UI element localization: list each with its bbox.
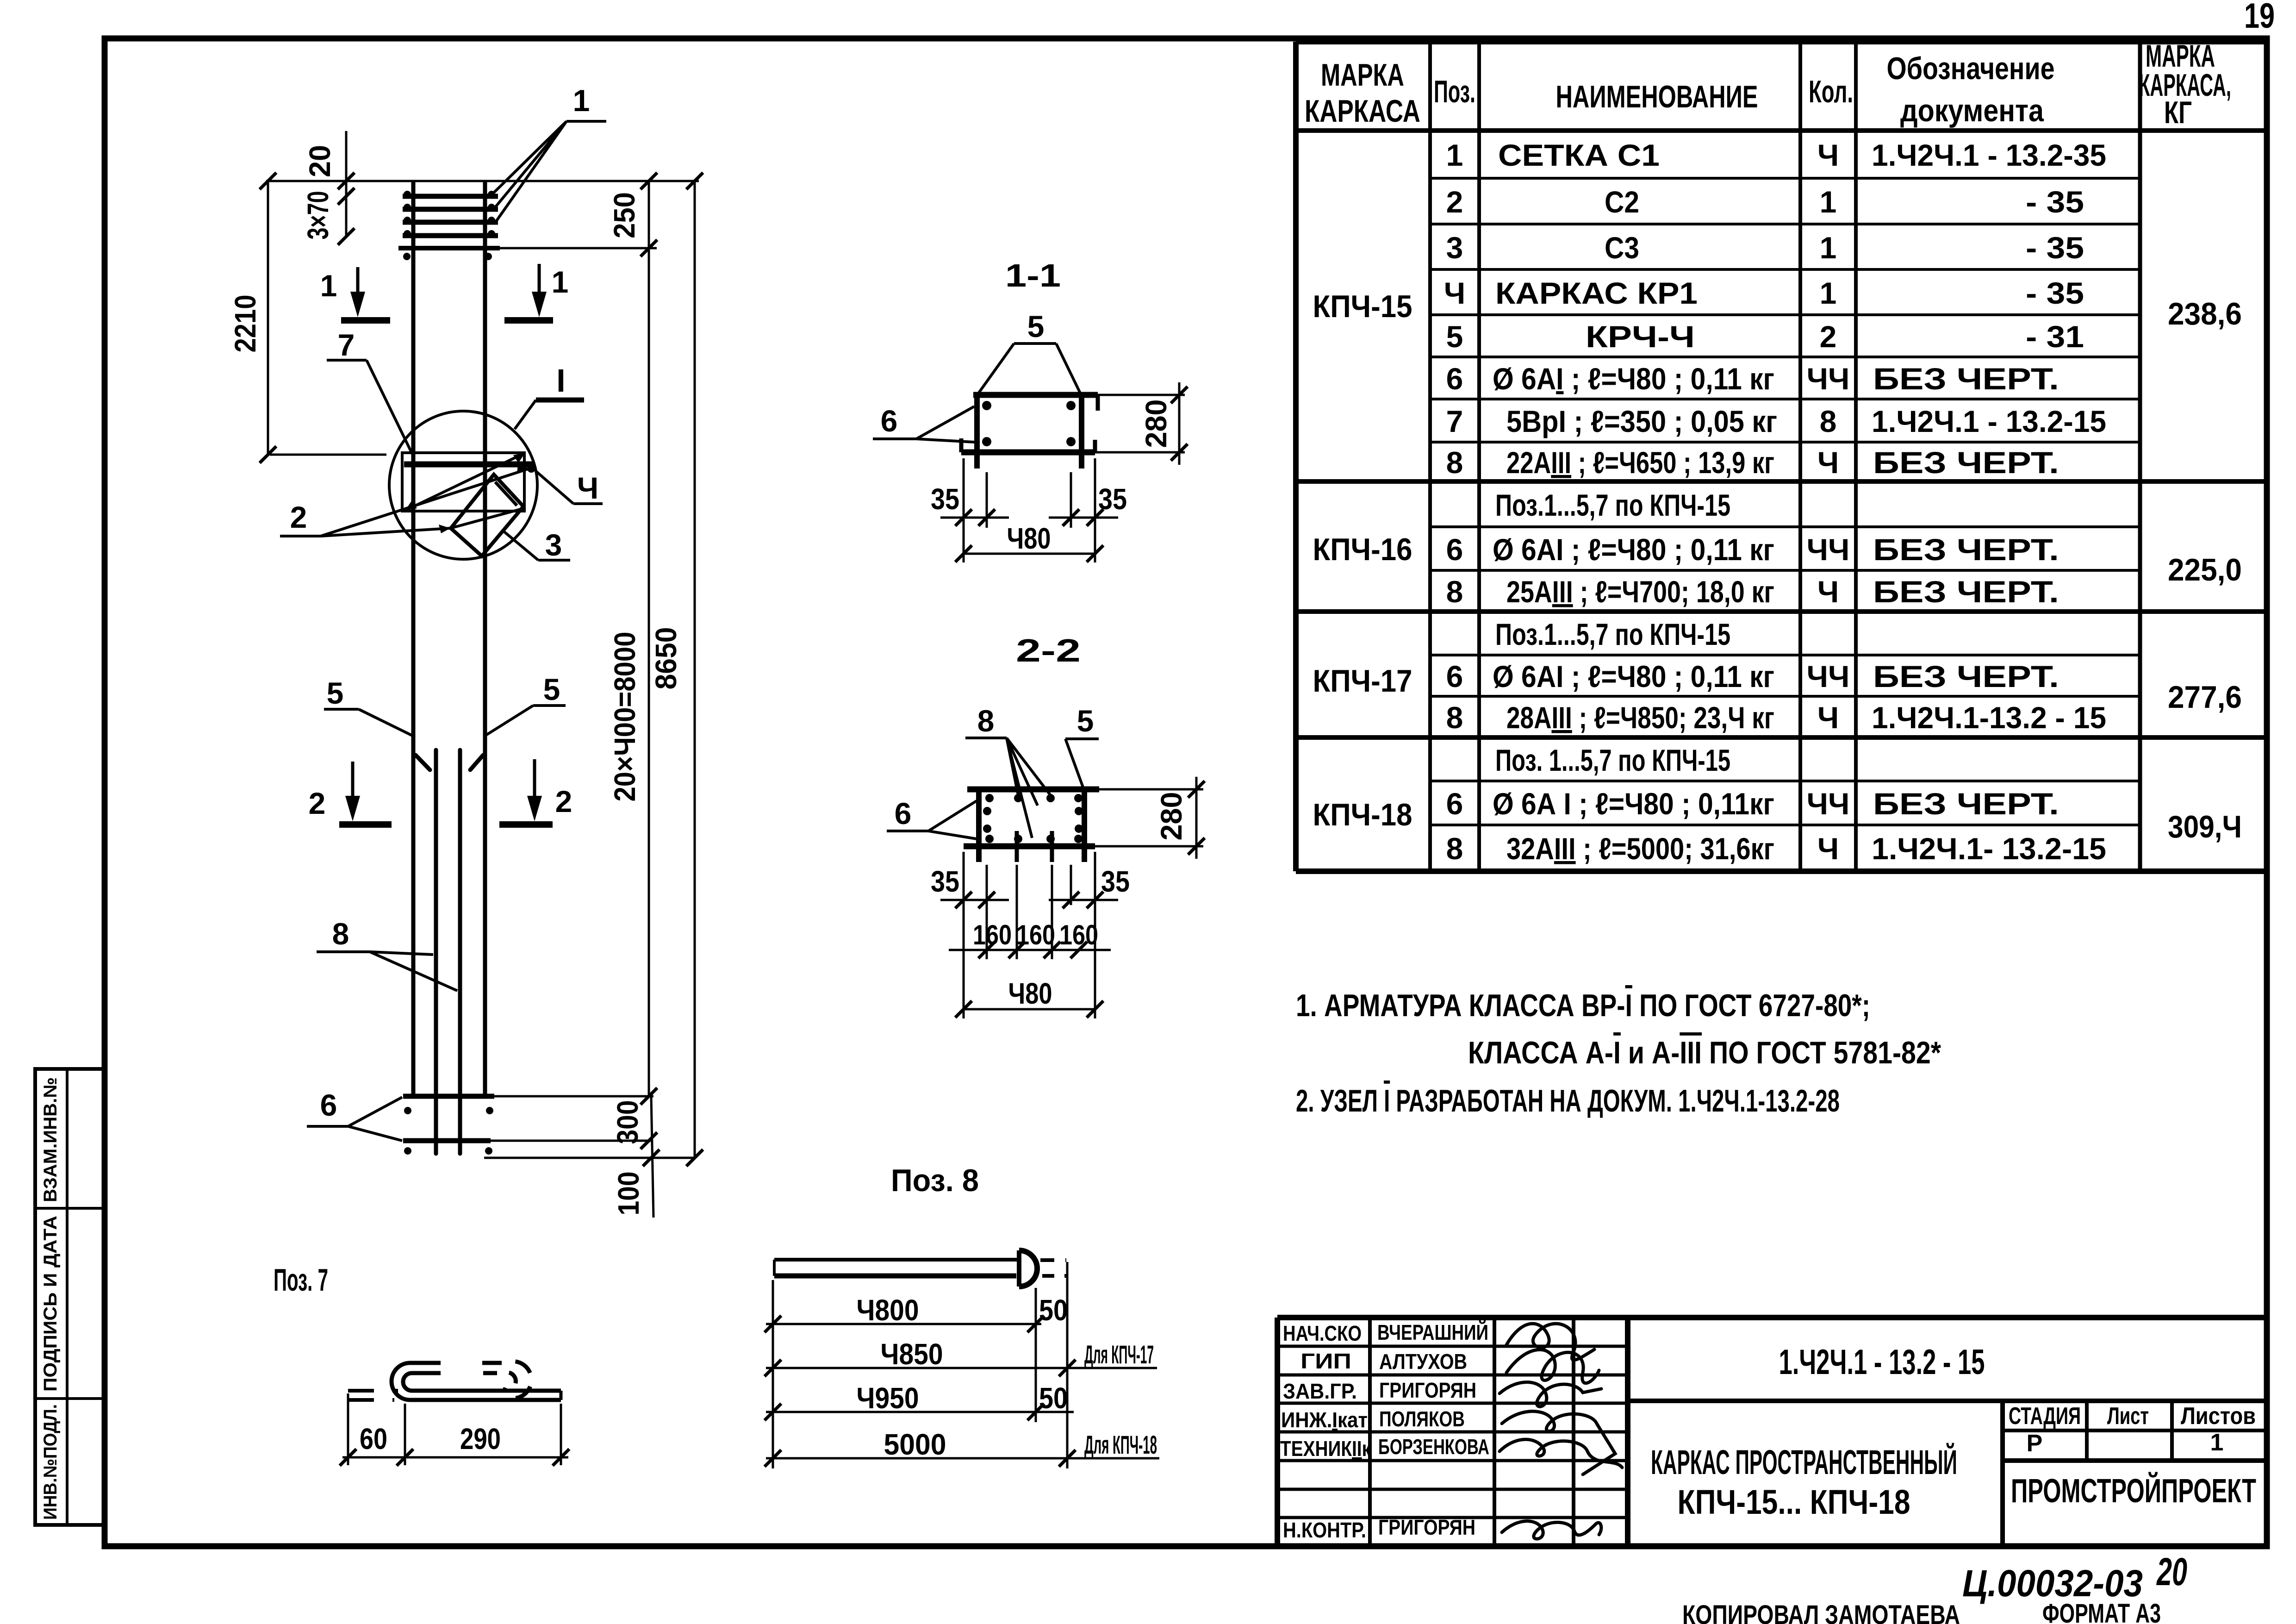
svg-text:ИНВ.№ПОДЛ.: ИНВ.№ПОДЛ. <box>40 1404 61 1520</box>
svg-text:- 35: - 35 <box>2026 231 2084 265</box>
svg-text:20: 20 <box>303 145 336 177</box>
svg-text:6: 6 <box>1446 532 1463 567</box>
svg-text:Для КПЧ-17: Для КПЧ-17 <box>1084 1340 1154 1369</box>
svg-text:1.Ч2Ч.1 - 13.2-35: 1.Ч2Ч.1 - 13.2-35 <box>1872 138 2106 172</box>
svg-text:- 35: - 35 <box>2026 276 2084 310</box>
svg-text:5: 5 <box>1077 704 1094 738</box>
svg-text:8: 8 <box>1446 700 1463 735</box>
svg-text:2: 2 <box>290 500 307 534</box>
svg-text:1: 1 <box>552 265 569 299</box>
svg-text:НАИМЕНОВАНИЕ: НАИМЕНОВАНИЕ <box>1556 79 1758 114</box>
svg-text:32АIII ; ℓ=5000; 31,6кг: 32АIII ; ℓ=5000; 31,6кг <box>1506 831 1774 866</box>
svg-text:5: 5 <box>1446 319 1463 354</box>
svg-text:2-2: 2-2 <box>1016 632 1081 668</box>
svg-text:Ø 6А I ; ℓ=Ч80 ; 0,11кг: Ø 6А I ; ℓ=Ч80 ; 0,11кг <box>1493 787 1774 821</box>
svg-text:ТЕХНИКIIк: ТЕХНИКIIк <box>1280 1437 1371 1461</box>
svg-text:1: 1 <box>573 83 590 118</box>
svg-text:6: 6 <box>895 796 912 831</box>
svg-text:ЧЧ: ЧЧ <box>1807 532 1850 567</box>
svg-text:1.Ч2Ч.1 - 13.2-15: 1.Ч2Ч.1 - 13.2-15 <box>1872 404 2106 438</box>
svg-text:22АIII ; ℓ=Ч650 ; 13,9 кг: 22АIII ; ℓ=Ч650 ; 13,9 кг <box>1506 445 1774 480</box>
svg-text:Кол.: Кол. <box>1809 74 1853 109</box>
svg-text:ПРОМСТРОЙПРОЕКТ: ПРОМСТРОЙПРОЕКТ <box>2011 1472 2256 1510</box>
svg-text:280: 280 <box>1155 792 1188 841</box>
svg-text:КПЧ-15: КПЧ-15 <box>1313 289 1412 324</box>
svg-text:35: 35 <box>931 482 959 516</box>
svg-text:35: 35 <box>1098 482 1127 516</box>
svg-text:160: 160 <box>1059 919 1098 950</box>
svg-text:1.Ч2Ч.1-13.2 - 15: 1.Ч2Ч.1-13.2 - 15 <box>1872 700 2106 735</box>
svg-text:Р: Р <box>2027 1430 2043 1457</box>
svg-text:2: 2 <box>1446 185 1463 219</box>
svg-text:2: 2 <box>1820 319 1837 354</box>
svg-text:ГИП: ГИП <box>1300 1349 1351 1373</box>
svg-text:Поз. 1...5,7 по КПЧ-15: Поз. 1...5,7 по КПЧ-15 <box>1495 743 1730 777</box>
svg-text:Для КПЧ-18: Для КПЧ-18 <box>1084 1430 1157 1459</box>
svg-text:1.Ч2Ч.1- 13.2-15: 1.Ч2Ч.1- 13.2-15 <box>1872 831 2106 866</box>
svg-text:2. УЗЕЛ I РАЗРАБОТАН НА ДО: 2. УЗЕЛ I РАЗРАБОТАН НА ДОКУМ. 1.Ч2Ч.1-1… <box>1296 1083 1840 1118</box>
svg-text:8: 8 <box>1820 404 1837 438</box>
svg-text:35: 35 <box>1101 865 1130 898</box>
svg-text:КРЧ-Ч: КРЧ-Ч <box>1586 319 1695 354</box>
svg-text:Ч950: Ч950 <box>857 1381 919 1415</box>
svg-text:3×70: 3×70 <box>301 191 335 240</box>
svg-text:6: 6 <box>1446 787 1463 821</box>
svg-text:Поз.1...5,7 по КПЧ-15: Поз.1...5,7 по КПЧ-15 <box>1495 488 1730 522</box>
svg-text:ГРИГОРЯН: ГРИГОРЯН <box>1378 1515 1475 1539</box>
svg-text:5ВрI ; ℓ=350 ; 0,05 кг: 5ВрI ; ℓ=350 ; 0,05 кг <box>1506 404 1777 438</box>
svg-text:Поз.: Поз. <box>1434 74 1475 109</box>
svg-text:Ч: Ч <box>1817 700 1839 735</box>
svg-text:- 35: - 35 <box>2026 185 2084 219</box>
svg-text:ЧЧ: ЧЧ <box>1807 787 1850 821</box>
svg-text:ЧЧ: ЧЧ <box>1807 362 1850 396</box>
svg-text:5: 5 <box>1027 309 1045 344</box>
svg-text:3: 3 <box>1446 231 1463 265</box>
svg-text:КПЧ-16: КПЧ-16 <box>1313 532 1412 567</box>
svg-text:Ø 6АI ; ℓ=Ч80 ; 0,11 кг: Ø 6АI ; ℓ=Ч80 ; 0,11 кг <box>1493 362 1774 396</box>
svg-text:Поз.1...5,7 по КПЧ-15: Поз.1...5,7 по КПЧ-15 <box>1495 617 1730 651</box>
svg-text:7: 7 <box>1446 404 1463 438</box>
svg-text:Лист: Лист <box>2107 1403 2149 1430</box>
svg-text:50: 50 <box>1039 1381 1068 1415</box>
svg-text:С2: С2 <box>1605 185 1639 219</box>
svg-text:5000: 5000 <box>884 1428 946 1461</box>
svg-text:1: 1 <box>1446 138 1463 172</box>
svg-text:КПЧ-15... КПЧ-18: КПЧ-15... КПЧ-18 <box>1678 1483 1910 1521</box>
svg-text:Ч800: Ч800 <box>857 1293 919 1327</box>
svg-text:1-1: 1-1 <box>1005 257 1061 294</box>
svg-text:2210: 2210 <box>229 295 262 353</box>
svg-text:8650: 8650 <box>649 627 683 690</box>
svg-text:КПЧ-17: КПЧ-17 <box>1313 663 1412 699</box>
svg-text:20×Ч00=8000: 20×Ч00=8000 <box>608 632 641 802</box>
svg-text:60: 60 <box>360 1422 387 1455</box>
svg-text:ФОРМАТ А3: ФОРМАТ А3 <box>2042 1599 2161 1624</box>
svg-text:6: 6 <box>1446 659 1463 693</box>
svg-text:НАЧ.СКО: НАЧ.СКО <box>1283 1321 1362 1345</box>
svg-text:Ø 6АI ; ℓ=Ч80 ; 0,11 кг: Ø 6АI ; ℓ=Ч80 ; 0,11 кг <box>1493 659 1774 693</box>
svg-text:документа: документа <box>1900 93 2044 128</box>
svg-text:19: 19 <box>2244 0 2275 36</box>
svg-text:1: 1 <box>2210 1429 2224 1456</box>
svg-text:Ч: Ч <box>1444 276 1465 310</box>
svg-text:1.Ч2Ч.1 - 13.2 - 15: 1.Ч2Ч.1 - 13.2 - 15 <box>1779 1343 1985 1382</box>
svg-text:БЕЗ ЧЕРТ.: БЕЗ ЧЕРТ. <box>1873 532 2059 567</box>
svg-text:I: I <box>556 362 565 399</box>
svg-text:Листов: Листов <box>2181 1403 2256 1430</box>
svg-text:ВЧЕРАШНИЙ: ВЧЕРАШНИЙ <box>1377 1320 1488 1344</box>
svg-text:Н.КОНТР.: Н.КОНТР. <box>1283 1518 1366 1542</box>
svg-text:290: 290 <box>460 1422 501 1455</box>
svg-text:ПОДПИСЬ И ДАТА: ПОДПИСЬ И ДАТА <box>40 1216 61 1392</box>
svg-text:Ч80: Ч80 <box>1007 522 1051 555</box>
svg-text:100: 100 <box>612 1172 645 1216</box>
svg-text:БЕЗ ЧЕРТ.: БЕЗ ЧЕРТ. <box>1873 575 2059 609</box>
svg-text:КОПИРОВАЛ ЗАМОТАЕВА: КОПИРОВАЛ ЗАМОТАЕВА <box>1682 1600 1960 1624</box>
svg-text:ГРИГОРЯН: ГРИГОРЯН <box>1379 1378 1476 1402</box>
svg-text:7: 7 <box>338 328 355 362</box>
svg-text:Поз. 8: Поз. 8 <box>891 1163 979 1198</box>
svg-text:Поз. 7: Поз. 7 <box>274 1262 328 1298</box>
svg-text:8: 8 <box>1446 831 1463 866</box>
svg-text:КАРКАС КР1: КАРКАС КР1 <box>1495 276 1698 310</box>
svg-text:БЕЗ ЧЕРТ.: БЕЗ ЧЕРТ. <box>1873 362 2059 396</box>
svg-text:Ч850: Ч850 <box>881 1337 943 1371</box>
svg-text:МАРКА: МАРКА <box>1321 57 1404 93</box>
svg-text:ЧЧ: ЧЧ <box>1807 659 1850 693</box>
svg-text:2: 2 <box>309 786 326 820</box>
svg-text:ИНЖ.Iкат: ИНЖ.Iкат <box>1281 1408 1368 1432</box>
svg-text:КПЧ-18: КПЧ-18 <box>1313 797 1412 832</box>
svg-text:3: 3 <box>545 528 562 562</box>
svg-text:ПОЛЯКОВ: ПОЛЯКОВ <box>1379 1407 1465 1431</box>
svg-text:СЕТКА С1: СЕТКА С1 <box>1498 138 1660 172</box>
svg-text:238,6: 238,6 <box>2168 296 2242 331</box>
svg-text:- 31: - 31 <box>2026 319 2084 354</box>
svg-text:Ч: Ч <box>1817 445 1839 480</box>
svg-text:СТАДИЯ: СТАДИЯ <box>2009 1403 2081 1430</box>
svg-text:1: 1 <box>1820 185 1837 219</box>
svg-text:5: 5 <box>327 676 344 710</box>
svg-text:8: 8 <box>332 917 349 951</box>
svg-text:Обозначение: Обозначение <box>1887 51 2055 86</box>
svg-text:35: 35 <box>931 865 959 898</box>
svg-text:Ч: Ч <box>1817 138 1839 172</box>
svg-text:280: 280 <box>1139 400 1173 448</box>
svg-text:КАРКАСА: КАРКАСА <box>1305 94 1420 129</box>
svg-text:Ч: Ч <box>1817 575 1839 609</box>
svg-text:БЕЗ ЧЕРТ.: БЕЗ ЧЕРТ. <box>1873 659 2059 693</box>
svg-text:Ч80: Ч80 <box>1008 977 1052 1010</box>
svg-text:Ч: Ч <box>577 471 598 505</box>
svg-text:БЕЗ ЧЕРТ.: БЕЗ ЧЕРТ. <box>1873 787 2059 821</box>
svg-text:8: 8 <box>977 704 995 738</box>
svg-text:28АIII ; ℓ=Ч850; 23,Ч кг: 28АIII ; ℓ=Ч850; 23,Ч кг <box>1506 700 1774 735</box>
svg-text:160: 160 <box>1016 919 1055 950</box>
svg-text:ВЗАМ.ИНВ.№: ВЗАМ.ИНВ.№ <box>40 1077 61 1202</box>
svg-text:1: 1 <box>1820 276 1837 310</box>
svg-text:АЛТУХОВ: АЛТУХОВ <box>1379 1349 1467 1374</box>
svg-text:Ч: Ч <box>1817 831 1839 866</box>
svg-text:1: 1 <box>1820 231 1837 265</box>
svg-text:6: 6 <box>320 1088 337 1122</box>
svg-text:6: 6 <box>881 404 898 438</box>
svg-text:5: 5 <box>543 672 560 706</box>
svg-text:25АIII ; ℓ=Ч700; 18,0 кг: 25АIII ; ℓ=Ч700; 18,0 кг <box>1506 575 1774 609</box>
svg-text:С3: С3 <box>1605 231 1639 265</box>
svg-text:1. АРМАТУРА КЛАССА ВР-I ПО: 1. АРМАТУРА КЛАССА ВР-I ПО ГОСТ 6727-80*… <box>1296 988 1870 1023</box>
svg-text:8: 8 <box>1446 575 1463 609</box>
svg-text:300: 300 <box>611 1100 644 1144</box>
svg-text:2: 2 <box>555 784 572 818</box>
svg-text:ЗАВ.ГР.: ЗАВ.ГР. <box>1283 1379 1357 1403</box>
svg-text:БЕЗ ЧЕРТ.: БЕЗ ЧЕРТ. <box>1873 445 2059 480</box>
svg-text:Ø 6АI ; ℓ=Ч80 ; 0,11 кг: Ø 6АI ; ℓ=Ч80 ; 0,11 кг <box>1493 532 1774 567</box>
svg-text:КАРКАС ПРОСТРАНСТВЕННЫЙ: КАРКАС ПРОСТРАНСТВЕННЫЙ <box>1651 1443 1957 1481</box>
svg-text:КЛАССА А-I и А-III ПО ГОСТ: КЛАССА А-I и А-III ПО ГОСТ 5781-82* <box>1468 1035 1941 1070</box>
svg-text:КГ: КГ <box>2164 95 2192 130</box>
svg-text:225,0: 225,0 <box>2168 552 2242 587</box>
svg-text:250: 250 <box>608 192 641 238</box>
svg-text:277,6: 277,6 <box>2168 680 2242 715</box>
svg-text:50: 50 <box>1039 1293 1068 1327</box>
svg-text:6: 6 <box>1446 362 1463 396</box>
svg-text:160: 160 <box>973 919 1012 950</box>
svg-text:БОРЗЕНКОВА: БОРЗЕНКОВА <box>1378 1435 1489 1459</box>
svg-text:8: 8 <box>1446 445 1463 480</box>
svg-text:1: 1 <box>320 269 337 303</box>
svg-text:20: 20 <box>2156 1550 2187 1593</box>
svg-text:309,Ч: 309,Ч <box>2168 809 2242 844</box>
